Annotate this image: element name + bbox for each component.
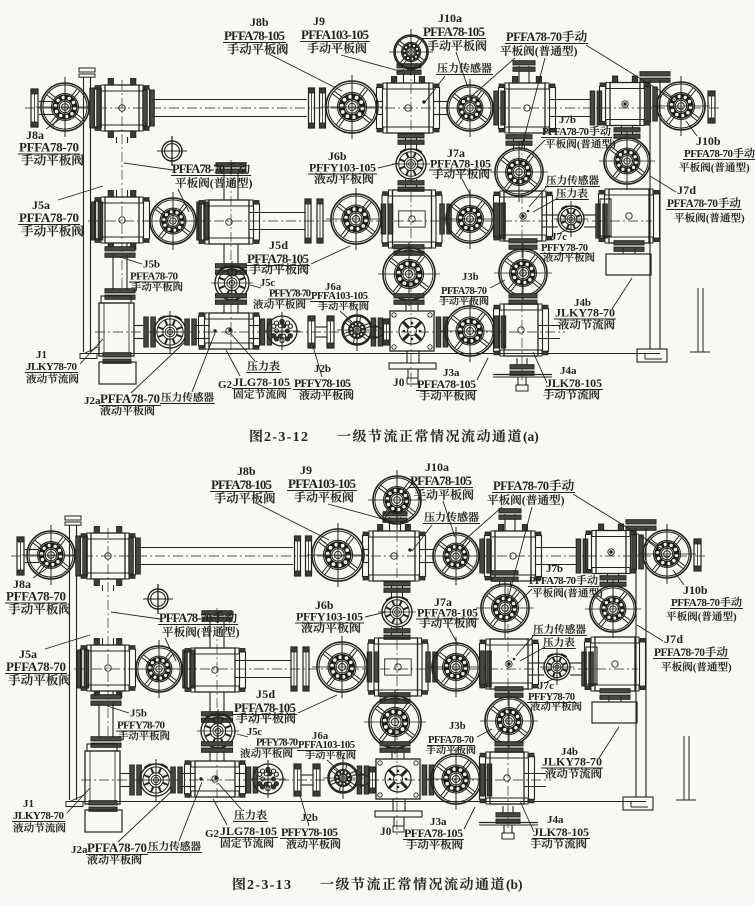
valve J7c handwheel (hydraulic) (fig b) [540, 649, 574, 685]
svg-text:PFFA78-105: PFFA78-105 [417, 377, 476, 391]
valve J7b body [494, 191, 553, 241]
svg-text:PFFA78-105: PFFA78-105 [410, 473, 473, 488]
label pressure sensor (bottom) [160, 333, 215, 404]
J7d side actuator (fig b) [586, 647, 597, 684]
svg-text:(: ( [693, 663, 697, 674]
column axis G2 [230, 160, 232, 355]
row B pipe [249, 213, 305, 230]
left column stem below J8a [117, 137, 128, 143]
svg-text:PFFA78-70: PFFA78-70 [671, 597, 721, 609]
svg-text:JLG78-105: JLG78-105 [220, 824, 277, 838]
svg-text:): ) [741, 214, 745, 225]
svg-text:PFFA78-70: PFFA78-70 [654, 647, 705, 659]
svg-text:PFFA78-105: PFFA78-105 [404, 826, 463, 840]
valve body at G2 column row B [199, 200, 260, 244]
label J4a (fig b) [520, 801, 590, 849]
row B pipe axis [88, 220, 652, 222]
J4a manual choke lower assembly (fig b) [503, 806, 513, 816]
valve J5d handwheel (fig b) [312, 636, 372, 698]
column axis J3b [521, 140, 523, 380]
flange (fig b) [130, 765, 142, 795]
svg-text:JLKY78-70: JLKY78-70 [555, 306, 615, 320]
valve body on row A at J7 column (fig b) [485, 525, 542, 582]
valve J8a body (fig b) [81, 527, 136, 586]
pipe (fig b) [570, 663, 582, 675]
label pressure gauge (bottom) (fig b) [218, 783, 268, 822]
figure a drawing [25, 29, 722, 391]
flange (fig b) [422, 765, 434, 795]
valve J7b body (fig b) [480, 639, 539, 689]
svg-text:(: ( [564, 589, 568, 600]
svg-text:J5b: J5b [143, 259, 160, 271]
column axis J3b (fig b) [507, 588, 509, 828]
label J6b (fig b) [295, 598, 386, 633]
label J9 [300, 14, 403, 72]
label J7c (fig b) [527, 677, 581, 711]
label J10a [422, 11, 486, 88]
label J6a (fig b) [297, 731, 356, 771]
row A pipe (fig b) [535, 548, 578, 565]
spool flanges (fig b) [294, 764, 301, 796]
label J5a [18, 186, 103, 237]
wellhead cross J0 [368, 327, 378, 337]
valve J9 stem (fig b) [390, 517, 401, 531]
flange (fig b) [426, 652, 438, 682]
svg-text:PFFY78-105: PFFY78-105 [294, 376, 351, 390]
row A pipe [152, 100, 307, 117]
valve J6b stem lower [406, 179, 417, 189]
svg-text:PFFA78-70: PFFA78-70 [506, 30, 562, 44]
flange pair [309, 88, 315, 128]
svg-text:): ) [612, 140, 616, 151]
label J7c [540, 228, 594, 262]
pipe (fig b) [25, 550, 39, 563]
svg-text:J0: J0 [393, 377, 405, 389]
valve J5a body (fig b) [81, 639, 136, 698]
valve J3a handwheel [440, 300, 500, 362]
G2 column upper bonnet [224, 170, 238, 200]
valve J5a body [95, 191, 150, 250]
svg-text:JLK78-105: JLK78-105 [546, 376, 602, 390]
label pressure gauge (mid) [533, 188, 589, 212]
pipe (fig b) [420, 550, 433, 563]
center column wheel [394, 245, 424, 256]
left stand pipe (fig b) [65, 516, 81, 520]
valve J1 body (hydraulic choke) (fig b) [87, 744, 117, 751]
flange (fig b) [480, 764, 492, 796]
label PFFA78-70 manual (top right) (fig b) [460, 479, 662, 599]
figure b drawing [11, 470, 708, 839]
bonnet stub above J7 column body (fig b) [505, 514, 515, 531]
left column pipe (fig b) [99, 691, 113, 698]
svg-text:JLKY78-70: JLKY78-70 [26, 361, 78, 373]
row A pipe axis (fig b) [11, 555, 708, 557]
svg-text:(: ( [706, 214, 710, 225]
flange [260, 319, 272, 345]
row A pipe [549, 100, 592, 117]
svg-text:PFFA78-70: PFFA78-70 [19, 140, 79, 155]
svg-text:J2b: J2b [301, 812, 318, 824]
J7d side actuator [600, 199, 611, 236]
label J5d [246, 238, 350, 275]
row A end flange right (fig b) [694, 539, 701, 571]
column axis left (fig b) [107, 528, 109, 748]
valve body on row A at J10b column [600, 76, 651, 126]
svg-text:): ) [746, 163, 750, 174]
flange [143, 90, 155, 126]
svg-text:J2a: J2a [84, 395, 101, 407]
row B pipe [542, 215, 558, 227]
svg-text:PFFA78-70: PFFA78-70 [6, 589, 66, 604]
svg-text:): ) [733, 612, 737, 623]
svg-text:(: ( [577, 140, 581, 151]
svg-text:J7b: J7b [559, 114, 576, 126]
flange [590, 91, 602, 125]
label J0 (fig b) [380, 826, 392, 838]
svg-text:J9: J9 [300, 463, 312, 477]
label J3b [439, 272, 505, 305]
label J0 [393, 377, 405, 389]
svg-text:J3b: J3b [449, 721, 466, 732]
pipe [378, 102, 383, 115]
svg-text:PFFA78-70: PFFA78-70 [100, 391, 160, 406]
svg-text:PFFA78-70: PFFA78-70 [19, 210, 79, 225]
svg-text:J5d: J5d [256, 687, 275, 701]
J7d lower stem (fig b) [600, 689, 630, 700]
valve J6b stem upper [406, 134, 417, 149]
flange (fig b) [171, 767, 183, 793]
svg-text:PFFA103-105: PFFA103-105 [298, 740, 355, 751]
svg-text:PFFY103-105: PFFY103-105 [309, 161, 376, 175]
flange (fig b) [480, 651, 492, 687]
choke G2 body (fig b) [185, 761, 246, 798]
valve J9 handwheel (fig b) [368, 470, 426, 530]
row B pipe (fig b) [235, 661, 291, 678]
row C pipe axis [95, 331, 565, 333]
row C pipe end (fig b) [524, 774, 546, 787]
label pressure sensor (mid) [529, 175, 600, 207]
svg-text:(: ( [197, 626, 201, 639]
svg-text:PFFA78-105: PFFA78-105 [423, 24, 486, 39]
pipe [194, 326, 209, 339]
svg-text:): ) [249, 177, 253, 190]
center column wheel (fig b) [380, 693, 410, 704]
flange [197, 202, 209, 240]
flange [494, 316, 506, 348]
label J5c (fig b) [237, 727, 299, 758]
caption 图2-3-13 [233, 877, 522, 893]
svg-text:PFFA78-70: PFFA78-70 [529, 575, 577, 587]
label J7a (fig b) [416, 595, 479, 645]
valve body on row A at J10b column (fig b) [586, 524, 637, 574]
svg-text:(b): (b) [506, 877, 523, 892]
valve J8a handwheel [36, 77, 94, 137]
svg-text:JLKY78-70: JLKY78-70 [13, 810, 65, 822]
label J10b [679, 121, 755, 174]
label J5c [250, 278, 312, 309]
svg-text:G2: G2 [218, 379, 233, 391]
flange [494, 91, 506, 125]
valve J5c handwheel (hydraulic) [211, 261, 253, 305]
svg-text:): ) [561, 494, 565, 507]
svg-text:PFFA78-70: PFFA78-70 [684, 148, 734, 160]
column axis left [121, 80, 123, 300]
right riser foot (fig b) [623, 797, 653, 810]
J0 lower stem and base (fig b) [393, 799, 405, 811]
row C pipe axis (fig b) [81, 779, 551, 781]
svg-text:PFFA78-70: PFFA78-70 [667, 198, 718, 210]
svg-text:PFFA103-105: PFFA103-105 [311, 291, 368, 302]
valve J7d body [599, 189, 660, 243]
label pressure sensor (top) [425, 63, 493, 102]
valve J7d body (fig b) [585, 637, 646, 691]
valve J6a handwheel (small) [337, 309, 377, 351]
label J4a [533, 352, 603, 400]
pipe [39, 102, 53, 115]
svg-text:J7c: J7c [538, 680, 554, 692]
svg-text:PFFA78-70: PFFA78-70 [159, 611, 212, 625]
label pressure gauge (bottom) [231, 334, 281, 373]
label J8a [18, 117, 83, 166]
label J2a [84, 341, 186, 415]
right riser pipe (fig b) [626, 520, 656, 531]
svg-text:J5b: J5b [130, 708, 147, 720]
valve J6b stem lower (fig b) [392, 627, 403, 637]
valve J8a handwheel (fig b) [22, 525, 80, 585]
column axis center (fig b) [396, 478, 398, 838]
valve J7d handwheel [599, 132, 655, 190]
bonnet stub above J7 column body [519, 66, 529, 83]
flange [436, 317, 448, 347]
svg-text:J10b: J10b [683, 583, 708, 597]
svg-text:PFFA78-70: PFFA78-70 [130, 271, 179, 283]
label J2a (fig b) [71, 790, 173, 864]
handwheel on row B (left) (fig b) [131, 640, 187, 698]
flange (fig b) [76, 536, 88, 576]
svg-text:PFFY78-105: PFFY78-105 [281, 825, 338, 839]
left column stem below J8a (fig b) [103, 585, 114, 591]
valve J10b handwheel (fig b) [638, 524, 696, 584]
flange (fig b) [357, 766, 369, 794]
flange (fig b) [183, 650, 195, 688]
svg-text:J10b: J10b [696, 134, 721, 148]
pipe [434, 102, 447, 115]
flange pair (fig b) [295, 536, 301, 576]
valve J3b handwheel (fig b) [495, 687, 523, 698]
flange (fig b) [367, 652, 379, 682]
svg-text:PFFA78-70: PFFA78-70 [493, 479, 549, 493]
pressure sensor port on J9 body [422, 100, 425, 103]
right riser pipe [640, 72, 670, 83]
svg-text:J7c: J7c [551, 231, 567, 243]
svg-text:(: ( [210, 177, 214, 190]
valve J7d upper stem [622, 125, 633, 139]
label J2b (fig b) [280, 795, 340, 849]
svg-text:J7d: J7d [664, 632, 683, 646]
pipe [89, 102, 92, 115]
flange (fig b) [582, 652, 594, 686]
figure a labels [18, 11, 755, 415]
svg-text:PFFA78-105: PFFA78-105 [211, 477, 273, 492]
flange pair [305, 199, 311, 243]
flange (fig b) [77, 650, 89, 688]
pipe (fig b) [235, 774, 250, 787]
valve body center column row B [382, 190, 442, 248]
J4b hydraulic choke actuator box (fig b) [592, 702, 637, 723]
label G2 [218, 350, 291, 399]
svg-text:J2b: J2b [314, 363, 331, 375]
svg-text:PFFA78-70: PFFA78-70 [172, 162, 225, 176]
base rail [84, 353, 660, 355]
label J5d (fig b) [233, 687, 337, 724]
valve J8b handwheel [321, 75, 383, 139]
svg-text:PFFA103-105: PFFA103-105 [288, 476, 357, 491]
svg-text:JLG78-105: JLG78-105 [233, 375, 290, 389]
row A end flange left [31, 89, 38, 127]
port circle (gauge connection) [162, 141, 182, 161]
valve J9 body [377, 77, 440, 134]
valve J10a handwheel (fig b) [428, 527, 484, 585]
valve J10b handwheel [652, 76, 710, 136]
port circle (gauge connection) (fig b) [148, 589, 168, 609]
svg-text:PFFY78-70: PFFY78-70 [269, 289, 311, 300]
svg-text:J1: J1 [23, 798, 34, 810]
valve J7a handwheel [441, 189, 499, 249]
label J4b (fig b) [541, 727, 619, 779]
flange [185, 319, 197, 345]
left stand foot (fig b) [70, 795, 84, 802]
svg-text:(: ( [535, 45, 539, 58]
valve J9 body (fig b) [363, 525, 426, 582]
pressure sensor port on J9 body (fig b) [408, 548, 411, 551]
svg-text:PFFA78-105: PFFA78-105 [417, 606, 478, 620]
row A pipe axis [25, 107, 722, 109]
caption 图2-3-12 [250, 429, 538, 445]
svg-text:PFFA78-70: PFFA78-70 [441, 286, 487, 297]
label pressure sensor (mid) (fig b) [516, 624, 587, 656]
label G2 (fig b) [205, 799, 278, 848]
left column pipe [113, 243, 127, 250]
svg-text:PFFY78-70: PFFY78-70 [528, 692, 575, 703]
left stand foot [84, 347, 98, 354]
column axis center [410, 30, 412, 390]
label J7d [650, 176, 745, 225]
valve J3a handwheel (fig b) [426, 748, 486, 810]
flange [90, 88, 102, 128]
valve J3b body row C [494, 304, 549, 356]
figure b labels [5, 460, 743, 864]
svg-text:PFFY78-70: PFFY78-70 [256, 738, 298, 749]
svg-text:2-3-13: 2-3-13 [247, 878, 291, 893]
flange (fig b) [480, 539, 492, 573]
label J7a [429, 146, 492, 196]
wellhead cross J0 (fig b) [354, 775, 364, 785]
label PFFA78-70 manual (left) [124, 162, 253, 212]
svg-text:JLKY78-70: JLKY78-70 [542, 755, 602, 769]
svg-text:): ) [599, 589, 603, 600]
valve J7d handwheel (fig b) [585, 580, 641, 638]
svg-text:J7d: J7d [677, 183, 696, 197]
pipe [249, 326, 264, 339]
valve J8a body [95, 79, 150, 138]
valve J3b body row C (fig b) [480, 752, 535, 804]
valve J2a handwheel (hydraulic) (fig b) [136, 759, 176, 801]
G2 column lower stem (fig b) [210, 692, 224, 714]
flange pair (fig b) [632, 535, 644, 569]
svg-text:J5c: J5c [260, 278, 275, 289]
J4a manual choke lower assembly [517, 358, 527, 368]
flange [144, 317, 156, 347]
left column stem above J5a body (fig b) [103, 638, 114, 645]
J0 lower stem and base [407, 351, 419, 363]
flange [494, 203, 506, 239]
flange [371, 318, 383, 346]
label J10b (fig b) [666, 570, 743, 623]
pipe [584, 215, 596, 227]
label PFFA78-70 manual (left) (fig b) [111, 611, 240, 661]
label J3b (fig b) [426, 721, 492, 754]
stem [216, 294, 247, 305]
row B pipe (fig b) [528, 663, 544, 675]
label pressure sensor (top) (fig b) [412, 512, 480, 551]
svg-text:G2: G2 [205, 828, 220, 840]
spool flanges [308, 316, 315, 348]
valve J9 stem [404, 69, 415, 83]
svg-text:PFFA78-70: PFFA78-70 [6, 659, 66, 674]
label J4b [554, 278, 632, 330]
svg-text:(: ( [522, 494, 526, 507]
svg-text:PFFA78-70: PFFA78-70 [428, 735, 474, 746]
label J3a [416, 358, 488, 401]
G2 column upper bonnet (fig b) [210, 618, 224, 648]
svg-text:J8b: J8b [250, 15, 269, 29]
flange [91, 202, 103, 240]
J4b hydraulic choke actuator box [606, 254, 651, 275]
valve J7b handwheel (fig b) [500, 582, 511, 586]
label J8b [223, 15, 342, 91]
valve J3b handwheel [509, 239, 537, 250]
stem (fig b) [202, 742, 233, 753]
svg-text:J2a: J2a [71, 844, 88, 856]
pipe [134, 326, 146, 339]
pipe (fig b) [120, 774, 132, 787]
label J7b [527, 114, 616, 158]
flange (fig b) [246, 767, 258, 793]
label J5b [120, 257, 182, 291]
label pressure gauge (mid) (fig b) [520, 637, 576, 661]
valve J6b stem upper (fig b) [392, 582, 403, 597]
J1 pedestal [103, 353, 131, 364]
svg-text:): ) [728, 663, 732, 674]
label J2b [293, 346, 353, 400]
left stand pipe [79, 68, 95, 72]
svg-text:PFFA78-105: PFFA78-105 [224, 28, 286, 43]
right frame leg [697, 288, 699, 352]
svg-text:J9: J9 [313, 14, 325, 28]
label J7b (fig b) [514, 563, 603, 607]
svg-text:PFFY78-70: PFFY78-70 [117, 720, 166, 732]
label J9 (fig b) [287, 463, 390, 521]
label J8a (fig b) [5, 566, 70, 615]
label J5b (fig b) [107, 706, 169, 740]
pipe (fig b) [364, 550, 369, 563]
valve J8b handwheel (fig b) [307, 523, 369, 587]
svg-text:PFFY78-70: PFFY78-70 [541, 243, 588, 254]
valve J7b handwheel [514, 134, 525, 150]
svg-text:PFFA103-105: PFFA103-105 [301, 27, 370, 42]
flange (fig b) [576, 539, 588, 573]
flange pair (fig b) [291, 647, 297, 691]
